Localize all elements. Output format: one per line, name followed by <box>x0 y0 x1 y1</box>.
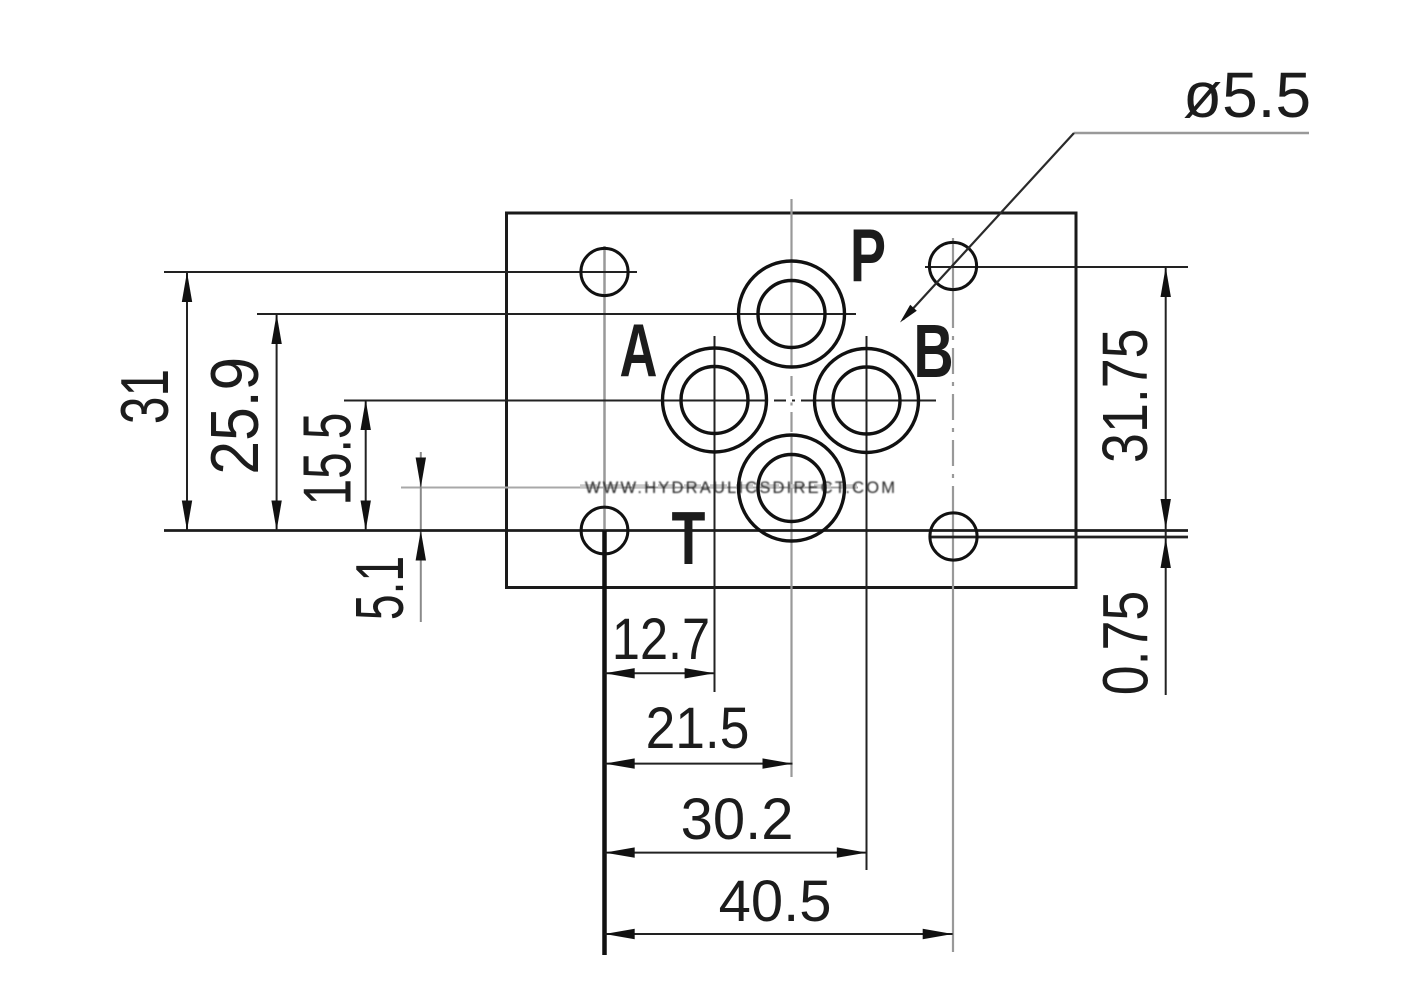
svg-text:A: A <box>620 308 658 393</box>
svg-text:21.5: 21.5 <box>646 696 750 761</box>
svg-text:B: B <box>913 309 953 393</box>
svg-text:30.2: 30.2 <box>681 787 794 852</box>
svg-text:5.1: 5.1 <box>342 556 418 620</box>
svg-text:15.5: 15.5 <box>290 413 365 506</box>
svg-text:31: 31 <box>106 369 183 424</box>
svg-text:T: T <box>672 496 706 580</box>
svg-text:ø5.5: ø5.5 <box>1183 59 1311 131</box>
svg-text:40.5: 40.5 <box>719 869 832 934</box>
svg-text:25.9: 25.9 <box>197 357 273 475</box>
svg-text:WWW.HYDRAULICSDIRECT.COM: WWW.HYDRAULICSDIRECT.COM <box>585 479 897 497</box>
svg-text:P: P <box>850 213 886 297</box>
svg-text:31.75: 31.75 <box>1089 328 1162 463</box>
svg-text:12.7: 12.7 <box>612 607 710 672</box>
svg-text:0.75: 0.75 <box>1089 591 1162 696</box>
